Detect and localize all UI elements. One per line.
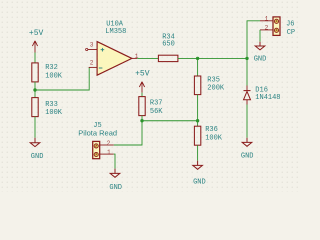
ground (J6) xyxy=(255,42,265,50)
wire junction to R35 xyxy=(197,58,199,76)
node A junction xyxy=(33,88,36,91)
svg-text:1N4148: 1N4148 xyxy=(255,94,280,102)
ground (left) xyxy=(30,138,40,147)
svg-text:R33: R33 xyxy=(45,101,58,109)
ground (D16) xyxy=(242,138,252,147)
svg-text:R37: R37 xyxy=(150,100,163,108)
svg-text:3: 3 xyxy=(90,41,94,48)
svg-text:100K: 100K xyxy=(205,135,223,143)
wire R34 to J6 column xyxy=(178,57,247,59)
resistor R32 xyxy=(32,63,38,82)
wire +5V to R37 xyxy=(141,93,143,97)
svg-text:1: 1 xyxy=(265,16,269,23)
resistor R37 xyxy=(139,97,145,116)
wire J6 pin1 down the bus to D16 xyxy=(247,21,260,86)
svg-text:100K: 100K xyxy=(45,109,63,117)
wire +5V to R32 xyxy=(34,53,36,63)
ground (J5) xyxy=(110,169,120,178)
wire pin1 to R34 xyxy=(137,57,158,59)
J6 pin 2 xyxy=(260,29,273,31)
junction C below R37 xyxy=(140,119,143,122)
wire R32 to R33 xyxy=(34,82,36,98)
J5 pin 2 xyxy=(100,144,114,146)
resistor R35 xyxy=(194,76,200,95)
svg-text:GND: GND xyxy=(241,153,254,161)
junction at R35 top xyxy=(196,57,199,60)
connector J6 xyxy=(273,17,280,36)
power +5V (R37) xyxy=(139,82,144,93)
op-amp U10A xyxy=(97,42,132,76)
svg-text:200K: 200K xyxy=(207,85,225,93)
svg-text:R35: R35 xyxy=(207,76,220,84)
wire R37 to junction C xyxy=(141,116,143,121)
wire R35 to junction B xyxy=(197,95,199,121)
connector J5 xyxy=(93,141,100,158)
junction B below R35 xyxy=(196,119,199,122)
wire node A to op-amp pin 2 xyxy=(35,67,89,90)
svg-text:CP: CP xyxy=(287,29,295,37)
resistor R33 xyxy=(32,98,38,117)
power +5V (left) xyxy=(32,41,37,53)
J5 pin 1 xyxy=(100,153,114,155)
svg-text:GND: GND xyxy=(31,153,44,161)
wire D16 to ground xyxy=(246,105,248,138)
wire R36 to ground xyxy=(197,145,199,161)
svg-text:J6: J6 xyxy=(286,21,294,29)
ground (R36) xyxy=(193,161,203,170)
junction D at bus xyxy=(245,57,248,60)
svg-text:650: 650 xyxy=(162,41,175,49)
svg-text:+5V: +5V xyxy=(135,70,150,79)
svg-text:R36: R36 xyxy=(205,126,218,134)
svg-text:2: 2 xyxy=(90,59,94,66)
diode D16 xyxy=(246,86,248,91)
wire junction C to J5 pin 2 xyxy=(114,121,142,145)
resistor R36 xyxy=(197,121,199,126)
op-amp pin 2 xyxy=(89,66,97,68)
svg-text:GND: GND xyxy=(109,184,122,192)
wire R33 to ground xyxy=(34,117,36,138)
svg-text:GND: GND xyxy=(193,178,206,186)
J6 pin 1 xyxy=(260,20,273,22)
svg-text:1: 1 xyxy=(107,149,111,156)
wire J5 pin1 to ground xyxy=(114,154,115,169)
svg-text:LM358: LM358 xyxy=(105,28,126,36)
wire J6 pin2 to ground xyxy=(259,30,261,42)
wire junction C to junction B xyxy=(142,120,198,122)
svg-text:2: 2 xyxy=(265,25,269,32)
svg-text:2: 2 xyxy=(107,140,111,147)
svg-text:+5V: +5V xyxy=(29,29,44,38)
resistor R34 xyxy=(158,55,178,61)
svg-text:56K: 56K xyxy=(150,108,163,116)
op-amp pin 1 xyxy=(132,57,137,59)
svg-text:R32: R32 xyxy=(45,64,58,72)
svg-text:GND: GND xyxy=(254,56,267,64)
op-amp pin 3 xyxy=(88,49,97,51)
svg-text:Pilota Read: Pilota Read xyxy=(78,128,117,137)
svg-text:100K: 100K xyxy=(45,72,63,80)
